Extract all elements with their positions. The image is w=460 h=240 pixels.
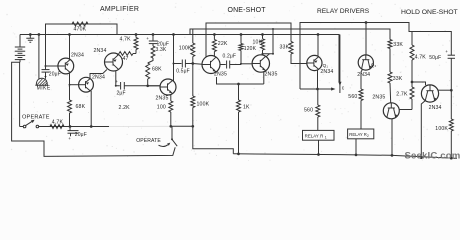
node rail-Q1 — [68, 33, 71, 36]
resistor 560 (relay 1) — [317, 89, 319, 105]
capacitor C2 2uF — [120, 82, 122, 90]
wire 47 to 4.7K — [133, 53, 136, 55]
wire Q2 collector — [117, 54, 119, 56]
resistor 33K lower — [388, 72, 392, 83]
wire operate bus faded — [109, 125, 170, 127]
resistor 4.7K hold — [411, 32, 413, 46]
resistor 22K — [213, 35, 215, 40]
svg-text:2N35: 2N35 — [156, 96, 169, 102]
node rail-10K — [261, 33, 264, 36]
transistor Q2 2N34 — [105, 53, 123, 71]
resistor 2.7K — [411, 82, 413, 87]
wire mike feed — [38, 35, 40, 80]
svg-text:120K: 120K — [244, 46, 257, 52]
wire Q9 collector — [399, 109, 412, 111]
svg-text:4.7K: 4.7K — [415, 55, 427, 61]
wire mid rail (one-shot bias) — [190, 29, 390, 40]
resistor 68K one-shot — [148, 58, 153, 63]
wire 4.7K to junction — [411, 60, 413, 82]
wire 100 to bus — [170, 112, 172, 126]
svg-text:+: + — [68, 136, 71, 141]
wire operate bus right — [170, 125, 193, 127]
resistor 120K — [240, 35, 242, 44]
svg-text:560: 560 — [348, 94, 357, 100]
capacitor C1 20uF (input) — [42, 69, 50, 71]
transistor Q3 2N35 — [160, 79, 176, 95]
wire switch to battery line — [20, 126, 24, 128]
svg-text:HOLD ONE-SHOT: HOLD ONE-SHOT — [401, 9, 458, 16]
node 10K corner — [262, 53, 264, 55]
resistor 560 (relay 2) — [359, 89, 363, 101]
svg-text:2.2K: 2.2K — [119, 105, 131, 111]
resistor R-470K — [72, 22, 88, 26]
wire Q3 collector — [173, 35, 175, 82]
node 120K bottom — [240, 63, 242, 65]
capacitor C6 50uF — [448, 54, 455, 56]
wire 4.7K leads — [135, 35, 137, 38]
resistor 68K amplifier — [68, 100, 72, 113]
svg-text:1K: 1K — [243, 104, 250, 110]
svg-text:20μF: 20μF — [49, 72, 61, 78]
svg-text:2N35: 2N35 — [214, 72, 227, 78]
transistor Q8 2N34 — [421, 85, 438, 102]
transistor Q9 2N35 — [383, 103, 399, 119]
svg-text:2μF: 2μF — [117, 91, 126, 97]
svg-text:2.7K: 2.7K — [396, 91, 408, 97]
wire Q1 emitter — [69, 73, 71, 100]
svg-text:100K: 100K — [197, 101, 210, 107]
wire Q3 base — [148, 85, 160, 87]
arrow C node — [339, 35, 341, 94]
wire Q6 emitter — [317, 70, 319, 89]
resistor 100K lower — [191, 96, 195, 108]
wire Q6 collector — [317, 35, 319, 57]
wire Q8 collector — [438, 89, 452, 91]
capacitor C5 0.2uF — [220, 64, 226, 66]
wire 100K2 to bottom — [193, 108, 234, 154]
wire relay-driver emitter bus — [300, 88, 332, 90]
resistor 10K — [261, 39, 265, 50]
svg-text:33K: 33K — [393, 76, 403, 82]
svg-text:+: + — [445, 49, 448, 54]
svg-text:+: + — [146, 36, 149, 41]
wire Q1 base — [46, 65, 59, 67]
svg-text:2N34: 2N34 — [92, 74, 105, 80]
svg-text:4.7K: 4.7K — [120, 36, 132, 42]
node railtop-Q7 — [365, 21, 368, 24]
svg-text:2N34: 2N34 — [429, 105, 442, 111]
resistor 33K one-shot out — [289, 42, 293, 55]
resistor 100 ohm — [169, 101, 173, 112]
node operate bus right end — [191, 125, 194, 128]
node 100K bottom — [191, 62, 194, 65]
relay R1 box — [303, 130, 335, 140]
svg-text:Q₂: Q₂ — [371, 63, 377, 68]
wire Q7 base from rail — [365, 23, 367, 56]
battery B1 — [19, 35, 21, 48]
wire Q2 emitter — [116, 71, 120, 86]
node Q1b base — [69, 84, 71, 86]
svg-text:c: c — [342, 86, 345, 92]
svg-text:100: 100 — [157, 105, 166, 111]
wire C2 to Q3 base — [124, 85, 160, 87]
wire relay/hold top rail — [300, 23, 451, 90]
wire Q3 emitter — [170, 95, 172, 102]
svg-text:22K: 22K — [218, 41, 228, 47]
node bus-Q1b — [90, 125, 93, 128]
capacitor C4 0.5uF — [174, 63, 182, 65]
svg-text:3.3K: 3.3K — [156, 47, 167, 53]
node C4 left — [173, 63, 175, 65]
wire R2 to ground rail — [355, 139, 357, 155]
capacitor C7 20uF (bias) — [69, 127, 71, 131]
node Q3 base junction — [146, 84, 149, 87]
node rail-cap20 — [152, 33, 155, 36]
svg-text:68K: 68K — [76, 104, 86, 110]
svg-text:+: + — [115, 79, 118, 84]
node rail-Q3 — [172, 33, 175, 36]
svg-text:20μF: 20μF — [75, 132, 87, 138]
resistor 47 — [119, 52, 133, 56]
resistor 4.7K amplifier — [134, 38, 138, 50]
wire R1 to ground rail — [318, 140, 320, 154]
resistor 4.7K operate — [50, 125, 64, 129]
node Q1 base tap — [45, 65, 47, 67]
node bus-68K — [69, 125, 72, 128]
wire Q1b emitter — [90, 91, 92, 127]
svg-text:2N34: 2N34 — [71, 53, 84, 59]
wire Q5 base — [241, 63, 252, 65]
node rail-mike — [38, 33, 41, 36]
switch S2 OPERATE — [171, 126, 173, 139]
transistor Q4 2N35 — [202, 56, 220, 74]
svg-text:AMPLIFIER: AMPLIFIER — [100, 6, 139, 13]
svg-text:2N35: 2N35 — [372, 95, 385, 101]
wire Q5 collector — [266, 54, 269, 57]
svg-text:33K: 33K — [393, 42, 403, 48]
wire Q8 base — [412, 82, 426, 85]
node Q6 emitter — [316, 88, 319, 91]
node 100K-hold bottom — [450, 157, 453, 160]
svg-text:ONE-SHOT: ONE-SHOT — [228, 7, 267, 14]
node hold junction — [411, 81, 414, 84]
svg-text:0.5μF: 0.5μF — [176, 68, 190, 74]
svg-text:4.7K: 4.7K — [52, 119, 64, 125]
wire Q1b collector to Q2 — [90, 70, 107, 79]
wire Q8 emitter — [421, 101, 425, 158]
wire operate bus left — [39, 126, 109, 128]
transistor Q7 2N34 — [358, 55, 373, 70]
wire Q4 base — [193, 63, 202, 66]
svg-text:100K: 100K — [435, 126, 448, 132]
node Q2 emitter corner — [115, 85, 117, 87]
wire battery to switch — [19, 62, 21, 126]
wire Q7 emitter — [361, 69, 363, 89]
svg-text:SeekIC.com: SeekIC.com — [405, 150, 460, 161]
svg-text:1: 1 — [325, 135, 327, 139]
svg-text:33K: 33K — [280, 45, 290, 51]
node 1K tap — [237, 83, 240, 86]
node rail-gnd — [29, 33, 32, 36]
svg-text:100K: 100K — [179, 45, 192, 51]
svg-text:2N34: 2N34 — [320, 69, 333, 75]
svg-text:RELAY DRIVERS: RELAY DRIVERS — [317, 8, 370, 15]
resistor 1K — [238, 84, 240, 100]
svg-text:68K: 68K — [152, 67, 162, 73]
transistor Q1 2N34 — [58, 58, 74, 74]
resistor 33K upper — [388, 40, 392, 49]
svg-text:560: 560 — [304, 108, 313, 114]
transistor Q5 2N35 — [252, 55, 269, 72]
svg-text:10K: 10K — [253, 40, 263, 46]
wire Q1b base — [70, 84, 79, 86]
transistor Q6 2N34 — [307, 55, 322, 70]
node bus-100ohm — [169, 125, 172, 128]
wire one-shot top rail — [206, 23, 291, 57]
node rail-4.7K — [135, 33, 138, 36]
svg-text:50μF: 50μF — [429, 55, 441, 61]
svg-text:2N34: 2N34 — [94, 48, 107, 54]
microphone MIKE — [35, 78, 48, 85]
switch S1 OPERATE — [23, 125, 26, 128]
wire 10K bottom L — [263, 50, 274, 54]
node Q8 collector junction — [450, 89, 453, 92]
wire 100K2 line — [192, 64, 194, 97]
resistor 3.3K — [152, 44, 154, 46]
svg-text:470K: 470K — [74, 27, 87, 33]
node rail-Q6 — [317, 33, 320, 36]
resistor 100K one-shot — [192, 29, 194, 43]
wire Q5 emitter — [263, 72, 265, 84]
svg-text:MIKE: MIKE — [37, 86, 51, 92]
transistor Q1b 2N34 — [79, 77, 94, 92]
svg-text:RELAY R: RELAY R — [349, 132, 367, 137]
wire Q1 collector — [69, 35, 71, 59]
svg-text:OPERATE: OPERATE — [136, 138, 161, 144]
node rail-22K — [213, 33, 216, 36]
svg-text:+: + — [44, 74, 47, 80]
node rail-1K — [237, 153, 240, 156]
svg-text:2: 2 — [367, 134, 369, 138]
svg-text:0.2μF: 0.2μF — [223, 54, 237, 60]
svg-text:Q₁: Q₁ — [323, 63, 329, 68]
wire bottom ground rail — [233, 154, 457, 159]
svg-text:47: 47 — [123, 56, 129, 62]
wire battery to outer left — [12, 62, 176, 156]
ground — [26, 35, 34, 43]
wire 68K to operate bus — [69, 113, 71, 127]
svg-text:RELAY R: RELAY R — [305, 133, 324, 138]
wire amplifier supply rail — [20, 35, 339, 83]
wire Q4 emitter — [217, 77, 264, 84]
svg-text:OPERATE: OPERATE — [22, 115, 50, 121]
wire top rail 1 (amplifier feedback) — [46, 24, 118, 69]
resistor 100K hold — [449, 119, 453, 131]
svg-text:2N34: 2N34 — [357, 72, 370, 78]
node rail-120K — [240, 33, 243, 36]
relay R2 box — [348, 129, 374, 139]
wire Q9 emitter — [391, 119, 393, 156]
wire mid-rail to Q5 collector — [272, 29, 274, 54]
capacitor C3 20uF — [149, 40, 158, 42]
svg-text:2N35: 2N35 — [265, 72, 278, 78]
